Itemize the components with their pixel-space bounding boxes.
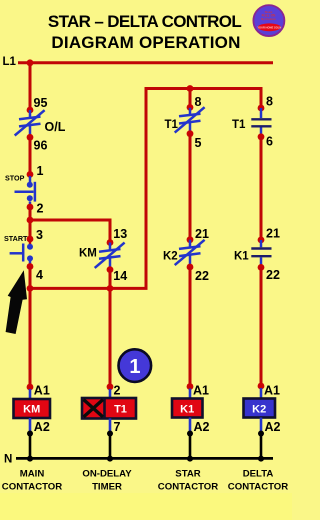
- svg-text:K1: K1: [180, 404, 194, 416]
- svg-text:STAR: STAR: [175, 469, 200, 480]
- timer T1: [82, 398, 136, 419]
- svg-text:6: 6: [266, 135, 273, 149]
- node terminal 5: [187, 130, 194, 137]
- svg-text:K2: K2: [163, 251, 178, 263]
- node junction sub-rail T1 branch: [187, 85, 194, 92]
- wire K2 to neutral: [260, 418, 263, 434]
- svg-text:A2: A2: [265, 420, 281, 434]
- node N junction K2: [258, 456, 264, 462]
- svg-text:K1: K1: [234, 251, 249, 263]
- svg-text:YOUR HOME SOLN: YOUR HOME SOLN: [257, 25, 281, 29]
- contact KM auxiliary (13-14): [95, 243, 125, 270]
- svg-text:A2: A2: [194, 420, 210, 434]
- step marker 1: [119, 349, 152, 382]
- node T1 bottom junction: [107, 431, 113, 437]
- wire blue into T1 timer: [109, 389, 112, 399]
- contact T1 timed NC (8-5): [175, 107, 205, 134]
- caption STAR CONTACTOR: [158, 469, 218, 493]
- svg-text:KM: KM: [79, 248, 97, 260]
- svg-text:A1: A1: [264, 384, 280, 398]
- svg-text:2: 2: [37, 201, 44, 215]
- svg-text:96: 96: [34, 139, 48, 153]
- wire 4 down to KM coil: [29, 267, 32, 390]
- node terminal 4: [27, 263, 34, 270]
- title: [48, 12, 241, 52]
- wire left rail from L1 to terminal 95: [29, 63, 32, 110]
- node N junction KM: [27, 456, 33, 462]
- wire 96 to terminal 1: [29, 137, 32, 174]
- svg-text:14: 14: [113, 269, 127, 283]
- node terminal A1 KM: [27, 384, 34, 391]
- caption DELTA CONTACTOR: [228, 469, 288, 493]
- svg-text:L1: L1: [3, 56, 17, 68]
- svg-text:8: 8: [266, 95, 273, 109]
- svg-text:DELTA: DELTA: [243, 469, 274, 480]
- node terminal 13: [107, 239, 114, 246]
- wire 14 down to T1 coil: [109, 270, 112, 387]
- svg-text:95: 95: [34, 96, 48, 110]
- contact K1 normally-open (21-22): [251, 240, 271, 267]
- svg-text:STAR – DELTA CONTROL: STAR – DELTA CONTROL: [48, 12, 241, 31]
- svg-text:STOP: STOP: [5, 174, 25, 183]
- contact T1 timed NO (8-6): [251, 108, 271, 137]
- svg-text:22: 22: [266, 268, 280, 282]
- caption MAIN CONTACTOR: [2, 469, 62, 493]
- svg-text:3: 3: [36, 228, 43, 242]
- svg-text:CONTACTOR: CONTACTOR: [228, 482, 288, 493]
- wire L1 rail: [18, 61, 273, 64]
- svg-text:4: 4: [36, 268, 43, 282]
- svg-text:8: 8: [195, 95, 202, 109]
- node terminal 14: [107, 266, 114, 273]
- svg-text:5: 5: [195, 136, 202, 150]
- wire sub-rail to terminal 8: [189, 89, 192, 108]
- node terminal 3: [27, 236, 34, 243]
- pushbutton STOP (NC): [15, 176, 35, 205]
- node KM A2 junction: [27, 431, 33, 437]
- node terminal A1 K2: [258, 383, 265, 390]
- node terminal 22 K2: [187, 264, 194, 271]
- node junction at 2: [27, 217, 34, 224]
- svg-text:21: 21: [195, 227, 209, 241]
- wire blue into K2 coil: [260, 388, 263, 399]
- contact K2 normally-closed (21-22): [175, 240, 205, 267]
- node terminal 6: [258, 133, 265, 140]
- svg-text:DIAGRAM OPERATION: DIAGRAM OPERATION: [51, 33, 240, 52]
- svg-text:T1: T1: [114, 404, 127, 416]
- node terminal 96: [27, 134, 34, 141]
- node K1 bottom junction: [187, 431, 193, 437]
- wire junction 2 to KM contact branch: [30, 220, 110, 243]
- wire blue into K1 coil: [189, 389, 192, 400]
- svg-text:CONTACTOR: CONTACTOR: [158, 482, 218, 493]
- wire 2 to terminal 3: [29, 207, 32, 239]
- svg-text:ON-DELAY: ON-DELAY: [82, 469, 132, 480]
- svg-text:TIMER: TIMER: [92, 482, 122, 493]
- node terminal 2 T1: [107, 383, 114, 390]
- svg-text:KM: KM: [23, 404, 40, 416]
- node K2 bottom junction: [258, 431, 264, 437]
- node N junction K1: [187, 456, 193, 462]
- node L1 junction: [27, 59, 34, 66]
- wire blue into KM coil: [29, 389, 32, 400]
- node terminal 2: [27, 204, 34, 211]
- svg-text:A2: A2: [34, 420, 50, 434]
- svg-text:1: 1: [129, 356, 140, 378]
- wire KM coil to neutral: [29, 418, 32, 434]
- coil K1: [172, 399, 203, 418]
- svg-text:1: 1: [37, 164, 44, 178]
- node terminal 1: [27, 171, 34, 178]
- node terminal 8 right: [258, 105, 265, 112]
- logo: [253, 5, 284, 36]
- pushbutton START (NO): [10, 239, 30, 264]
- node terminal 21 K2: [187, 236, 194, 243]
- node N junction T1: [107, 456, 113, 462]
- svg-text:START: START: [4, 234, 28, 243]
- wire 22 down to K2 coil: [260, 267, 263, 386]
- svg-text:My Creation: My Creation: [261, 17, 276, 21]
- svg-text:22: 22: [195, 269, 209, 283]
- node junction at 4: [27, 285, 34, 292]
- svg-text:T1: T1: [165, 119, 179, 131]
- wire 5 to terminal 21: [189, 134, 192, 240]
- wire bottom loop to riser: [30, 89, 261, 289]
- wire 22 down to K1 coil: [189, 267, 192, 387]
- svg-text:2: 2: [114, 384, 121, 398]
- wire neutral rail N: [16, 457, 273, 460]
- node junction KM branch bottom: [107, 285, 114, 292]
- svg-text:7: 7: [114, 420, 121, 434]
- wire K1 to neutral: [189, 418, 192, 434]
- node terminal 21 K1: [258, 237, 265, 244]
- node terminal 95: [27, 107, 34, 114]
- node terminal 8 left: [187, 104, 194, 111]
- svg-text:N: N: [4, 454, 12, 466]
- svg-text:K2: K2: [252, 404, 266, 416]
- svg-text:A1: A1: [193, 384, 209, 398]
- svg-text:T1: T1: [232, 119, 246, 131]
- annotation arrow: [6, 270, 27, 334]
- node terminal A1 K1: [187, 383, 194, 390]
- svg-text:CONTACTOR: CONTACTOR: [2, 482, 62, 493]
- svg-text:O/L: O/L: [45, 120, 66, 134]
- caption ON-DELAY TIMER: [82, 469, 132, 493]
- svg-text:A1: A1: [34, 384, 50, 398]
- svg-text:13: 13: [113, 227, 127, 241]
- svg-text:MAIN: MAIN: [20, 469, 45, 480]
- node terminal 22 K1: [258, 264, 265, 271]
- wire 6 to terminal 21 right: [260, 137, 263, 240]
- svg-text:21: 21: [266, 227, 280, 241]
- overload relay contact O/L: [15, 110, 45, 137]
- coil KM: [14, 399, 51, 418]
- wire T1 to neutral: [109, 419, 112, 434]
- coil K2: [244, 399, 276, 418]
